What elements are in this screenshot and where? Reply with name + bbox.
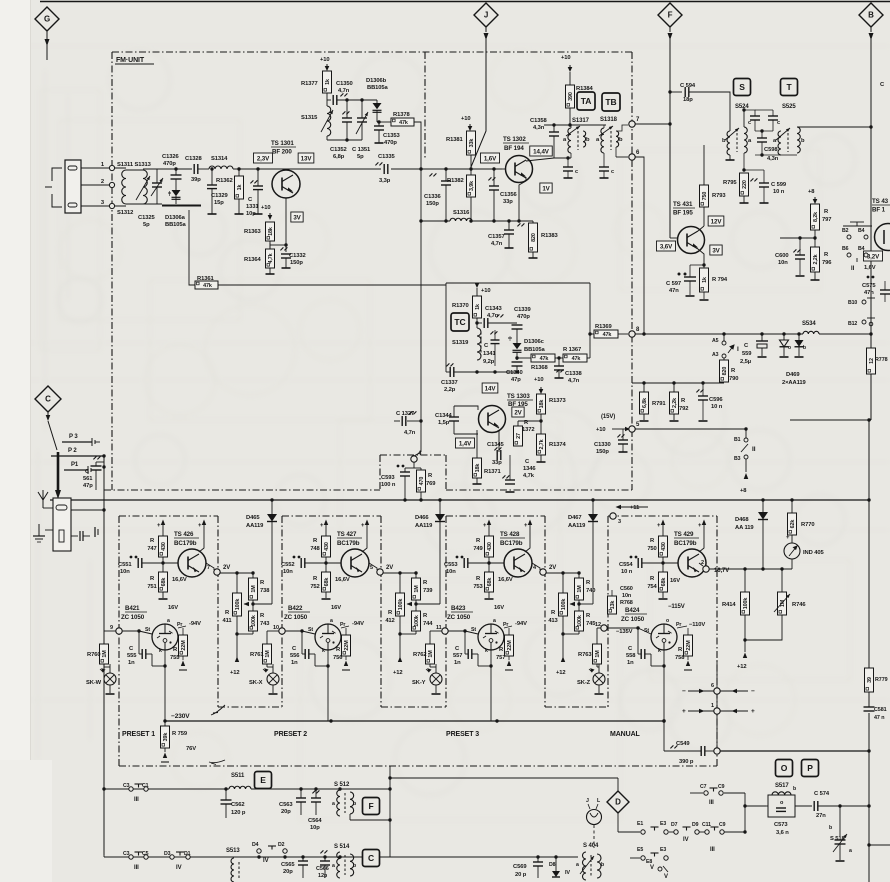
wire tuned circuit top	[143, 168, 192, 170]
svg-text:R1369: R1369	[595, 324, 612, 330]
resistor 757	[505, 635, 514, 656]
resistor R740	[575, 578, 584, 600]
indicator tube B421	[152, 624, 178, 650]
wire tube cathode	[164, 650, 166, 721]
svg-text:PRESET 3: PRESET 3	[446, 731, 479, 738]
alignment box P	[802, 760, 819, 777]
svg-text:150p: 150p	[596, 449, 609, 455]
capacitor c of S1318	[603, 153, 605, 167]
capacitor C1329	[207, 184, 217, 186]
svg-text:S 512: S 512	[334, 782, 350, 788]
capacitor c of S1317	[567, 158, 569, 167]
svg-text:R1370: R1370	[452, 303, 469, 309]
svg-text:−: −	[682, 688, 686, 695]
svg-text:I: I	[737, 346, 739, 353]
resistor R739	[412, 578, 421, 600]
wire node to left	[780, 237, 815, 239]
svg-text:R778: R778	[875, 357, 888, 363]
svg-text:3V: 3V	[712, 247, 720, 254]
wire C1337 to osc base	[454, 371, 517, 373]
svg-text:C1339: C1339	[514, 307, 531, 313]
svg-text:C11: C11	[702, 822, 711, 828]
svg-text:10n: 10n	[283, 569, 293, 575]
wire C7 row to S517	[744, 793, 746, 832]
svg-text:C: C	[368, 853, 374, 863]
wire base node TS 427	[324, 561, 327, 564]
svg-text:+: +	[657, 523, 661, 529]
transformer S524 winding a	[744, 127, 747, 153]
transformer S525 core	[787, 133, 789, 152]
svg-text:a: a	[332, 863, 335, 869]
svg-text:C1325: C1325	[138, 215, 155, 221]
wire S525 b to B bus	[797, 126, 871, 128]
svg-text:+: +	[751, 708, 755, 715]
coil S1313 (tuned)	[126, 169, 143, 171]
svg-text:6,8p: 6,8p	[333, 154, 345, 160]
svg-text:5p: 5p	[357, 154, 364, 160]
svg-text:R1373: R1373	[549, 398, 566, 404]
wire to R795	[743, 153, 745, 170]
svg-text:S517: S517	[775, 783, 789, 789]
svg-text:R1364: R1364	[244, 257, 261, 263]
coil S1311	[115, 167, 126, 169]
resistor R761 (outside box)	[263, 644, 272, 664]
indicator tube B423	[478, 624, 504, 650]
svg-text:1346: 1346	[523, 466, 536, 472]
wire F down to node 7 line and TS431 base	[669, 38, 671, 238]
svg-text:2,2k: 2,2k	[672, 398, 678, 408]
svg-text:790: 790	[729, 376, 738, 382]
svg-text:744: 744	[423, 621, 433, 627]
svg-text:C1356: C1356	[500, 192, 517, 198]
wire to +12	[415, 631, 417, 634]
svg-text:16V: 16V	[494, 605, 504, 611]
wire tube cathode	[327, 650, 329, 721]
earth symbol	[38, 524, 40, 536]
svg-text:4,7k: 4,7k	[268, 253, 274, 263]
svg-text:B10: B10	[848, 300, 857, 306]
svg-text:BC179b: BC179b	[174, 540, 197, 547]
wire base node TS 428	[487, 561, 490, 564]
svg-text:430: 430	[661, 542, 667, 551]
svg-text:16V: 16V	[670, 578, 680, 584]
svg-text:D1306b: D1306b	[366, 78, 387, 84]
svg-text:E8: E8	[646, 859, 652, 865]
svg-text:V: V	[650, 865, 654, 871]
svg-text:D467: D467	[568, 515, 581, 521]
alignment box O	[776, 760, 793, 777]
wire TS1302 collector to S1317	[526, 158, 568, 161]
wire to diode D46x	[253, 603, 272, 605]
svg-text:C: C	[45, 395, 51, 404]
svg-text:a: a	[332, 801, 335, 807]
wire base node TS 426	[161, 561, 164, 564]
wire J to mixer node	[471, 38, 486, 167]
svg-text:S524: S524	[735, 104, 749, 110]
svg-text:+: +	[198, 523, 202, 529]
svg-text:68k: 68k	[487, 578, 493, 587]
svg-text:R1374: R1374	[549, 442, 566, 448]
svg-text:16,6V: 16,6V	[335, 577, 350, 583]
svg-text:16,6V: 16,6V	[172, 577, 187, 583]
resistor R1371	[473, 458, 482, 478]
junction with arrow	[252, 600, 254, 611]
transformer S524 winding b	[727, 131, 730, 155]
wire S1316 row	[421, 220, 450, 222]
svg-text:10 n: 10 n	[773, 189, 785, 195]
wire node to St	[285, 630, 302, 632]
coupling capacitor c (left)	[744, 110, 755, 116]
svg-text:AA 119: AA 119	[735, 525, 754, 531]
svg-text:18k: 18k	[268, 227, 274, 236]
wire row 1 (y=789)	[104, 788, 229, 790]
svg-text:+10: +10	[596, 427, 606, 433]
transformer S525 winding b	[797, 127, 800, 153]
svg-text:1n: 1n	[291, 660, 298, 666]
svg-text:220: 220	[742, 180, 748, 189]
svg-text:R1377: R1377	[301, 81, 318, 87]
svg-text:+10: +10	[561, 55, 571, 61]
wire R1381 to line	[470, 155, 472, 169]
svg-text:F: F	[368, 801, 373, 811]
svg-text:556: 556	[290, 653, 300, 659]
svg-text:IV: IV	[565, 870, 570, 876]
svg-text:76V: 76V	[186, 746, 196, 752]
svg-text:R1382: R1382	[447, 178, 464, 184]
wire tuned circuit bottom	[143, 203, 162, 205]
node 6	[629, 154, 635, 160]
svg-text:B2: B2	[842, 228, 849, 234]
svg-text:C1336: C1336	[424, 194, 441, 200]
svg-text:10: 10	[273, 625, 279, 631]
capacitor C551	[130, 556, 133, 559]
svg-text:D4: D4	[252, 842, 259, 848]
svg-text:100k: 100k	[414, 615, 420, 627]
svg-text:10p: 10p	[310, 825, 320, 831]
svg-text:S511: S511	[231, 773, 245, 779]
svg-text:33p: 33p	[503, 199, 513, 205]
svg-text:47k: 47k	[540, 356, 549, 362]
alignment box TB	[602, 93, 620, 111]
alignment box TA	[577, 92, 595, 110]
svg-text:1k: 1k	[702, 277, 708, 283]
wire collector TS429	[699, 533, 704, 552]
node 8	[629, 331, 635, 337]
wire node6 right and down	[635, 157, 644, 334]
svg-text:100k: 100k	[743, 598, 749, 610]
svg-text:b: b	[829, 825, 832, 831]
svg-text:BB105a: BB105a	[165, 222, 187, 228]
svg-text:P1: P1	[71, 462, 79, 468]
wire collector TS 428	[525, 533, 530, 552]
svg-text:13V: 13V	[301, 155, 313, 162]
svg-text:c: c	[777, 120, 780, 126]
svg-text:S1311 S1313: S1311 S1313	[117, 162, 152, 168]
wire / arrow from J	[485, 27, 487, 32]
connector D (diamond)	[607, 791, 629, 813]
svg-text:413: 413	[548, 618, 558, 624]
connector F	[658, 3, 682, 27]
svg-text:IV: IV	[683, 837, 689, 843]
voltage box 2,3V	[253, 153, 272, 163]
voltage box 2V	[512, 407, 524, 417]
svg-text:C1332: C1332	[289, 253, 306, 259]
voltage box 3,6V	[656, 241, 675, 251]
capacitor C596	[696, 389, 704, 393]
wire B424 cathode	[663, 650, 665, 751]
svg-text:10n: 10n	[622, 593, 632, 599]
resistor R770	[788, 513, 797, 535]
svg-text:D465: D465	[246, 515, 260, 521]
svg-text:B: B	[868, 11, 874, 20]
wire box to earth	[45, 529, 53, 531]
svg-text:752: 752	[310, 584, 319, 590]
svg-text:D466: D466	[415, 515, 429, 521]
svg-text:C569: C569	[513, 864, 527, 870]
svg-text:C565: C565	[281, 862, 295, 868]
svg-text:E: E	[260, 775, 266, 785]
svg-text:820: 820	[722, 367, 728, 376]
transformer S1317 core	[577, 131, 579, 150]
svg-text:R761: R761	[250, 652, 264, 658]
capacitor C1352	[342, 117, 352, 119]
wire tube cathode	[490, 650, 492, 721]
svg-text:S1312: S1312	[117, 210, 133, 216]
svg-text:C554: C554	[619, 562, 633, 568]
svg-text:100k: 100k	[577, 615, 583, 627]
svg-text:+10: +10	[534, 377, 544, 383]
arrows at node 6	[688, 690, 714, 692]
svg-text:820: 820	[531, 233, 537, 242]
wire lamp to S404 (dashed)	[593, 825, 595, 848]
AGC wire R1378 down to node 4	[414, 122, 421, 452]
transformer S1318 winding b	[616, 131, 619, 147]
svg-text:5p: 5p	[143, 222, 150, 228]
svg-text:III: III	[134, 797, 139, 803]
svg-text:S1318: S1318	[600, 117, 618, 123]
svg-text:S1316: S1316	[453, 210, 470, 216]
wire S1317 bottom / collector node	[554, 157, 571, 159]
svg-text:470p: 470p	[517, 314, 530, 320]
svg-text:2V: 2V	[514, 409, 522, 416]
svg-text:3,6V: 3,6V	[660, 243, 673, 250]
junction with arrow	[578, 600, 580, 611]
svg-text:+: +	[698, 523, 702, 529]
svg-text:R763: R763	[578, 652, 592, 658]
svg-text:557: 557	[453, 653, 462, 659]
svg-text:S1319: S1319	[452, 340, 469, 346]
svg-text:14V: 14V	[485, 385, 497, 392]
svg-text:B422: B422	[288, 605, 303, 612]
svg-text:C598: C598	[764, 147, 778, 153]
svg-text:748: 748	[310, 546, 320, 552]
capacitor C1325 (variable)	[152, 182, 162, 184]
svg-text:150p: 150p	[426, 201, 439, 207]
junction with arrow	[415, 600, 417, 611]
svg-text:4,3n: 4,3n	[767, 156, 779, 162]
transformer S1318 core	[610, 131, 612, 150]
svg-text:SK-Z: SK-Z	[577, 680, 591, 686]
svg-text:+12: +12	[737, 664, 747, 670]
svg-text:ZC 1050: ZC 1050	[284, 614, 308, 621]
svg-text:C563: C563	[279, 802, 293, 808]
svg-text:C1328: C1328	[185, 156, 202, 162]
svg-text:J: J	[484, 11, 488, 20]
wire connector to terminals	[81, 167, 109, 169]
node 7 output	[214, 569, 220, 575]
svg-text:758: 758	[675, 655, 685, 661]
alignment box TC	[451, 313, 469, 331]
svg-text:A3: A3	[712, 352, 719, 358]
svg-text:IV: IV	[176, 865, 182, 871]
wire R1370 to osc node	[476, 318, 478, 323]
svg-text:D7: D7	[671, 822, 678, 828]
svg-text:TS 427: TS 427	[337, 531, 357, 538]
svg-text:c: c	[611, 169, 614, 175]
svg-text:D: D	[615, 798, 621, 807]
svg-text:B423: B423	[451, 605, 466, 612]
svg-text:743: 743	[260, 621, 270, 627]
svg-text:7: 7	[207, 565, 210, 571]
svg-text:C552: C552	[281, 562, 294, 568]
wire node to St	[448, 630, 465, 632]
svg-text:1372: 1372	[522, 427, 535, 433]
svg-text:R1362: R1362	[216, 178, 233, 184]
svg-text:2V: 2V	[386, 565, 393, 571]
wire node2 right	[709, 568, 792, 570]
wire R1377 to C1350	[326, 93, 328, 100]
svg-text:1M: 1M	[265, 650, 271, 658]
svg-text:754: 754	[647, 584, 657, 590]
diode D469a	[780, 340, 789, 347]
svg-text:796: 796	[822, 260, 832, 266]
svg-text:C1352: C1352	[330, 147, 347, 153]
svg-text:R760: R760	[87, 652, 100, 658]
svg-text:411: 411	[222, 618, 232, 624]
wire to diode D46x	[579, 603, 593, 605]
svg-text:+: +	[483, 523, 487, 529]
wire stub at right edge y=845	[867, 843, 870, 846]
svg-text:TS 428: TS 428	[500, 531, 520, 538]
node 10 input	[279, 628, 285, 634]
svg-text:B424: B424	[625, 607, 640, 614]
svg-text:561: 561	[83, 476, 93, 482]
supply +8 below II	[744, 473, 749, 479]
svg-text:-94V: -94V	[189, 621, 201, 627]
svg-text:C581: C581	[874, 707, 887, 713]
svg-text:SK-W: SK-W	[86, 680, 102, 686]
wire collector TS 426	[199, 533, 204, 552]
svg-text:k: k	[159, 648, 162, 654]
svg-text:9: 9	[110, 625, 113, 631]
wire / arrow from G	[46, 31, 48, 60]
resistor R778	[867, 348, 876, 374]
wire detector output bus y=383	[632, 382, 724, 384]
svg-text:C 574: C 574	[814, 791, 830, 797]
svg-text:39: 39	[867, 677, 873, 683]
svg-text:1341: 1341	[483, 351, 496, 357]
svg-text:47p: 47p	[83, 483, 93, 489]
resistor R411	[233, 593, 242, 616]
resistor R779	[865, 668, 874, 692]
svg-text:C1338: C1338	[565, 371, 582, 377]
svg-text:39p: 39p	[191, 177, 201, 183]
svg-text:756: 756	[333, 655, 343, 661]
wire S1318 bottom to node 6	[615, 147, 617, 157]
wire node12 to St	[607, 627, 638, 629]
svg-text:C1344: C1344	[435, 413, 452, 419]
indicator tube B422	[315, 624, 341, 650]
svg-text:IV: IV	[263, 858, 269, 864]
transformer S1317 winding b	[583, 131, 586, 147]
svg-text:+10: +10	[481, 288, 491, 294]
wire node 5 to divider	[383, 572, 416, 574]
svg-text:E1: E1	[637, 821, 643, 827]
svg-text:ZC 1050: ZC 1050	[121, 614, 145, 621]
main supply bus y=500	[50, 499, 869, 501]
svg-text:2,5µ: 2,5µ	[740, 359, 751, 365]
svg-text:-94V: -94V	[352, 621, 364, 627]
wire TS431 collector	[698, 226, 704, 231]
svg-text:MANUAL: MANUAL	[610, 731, 641, 738]
svg-text:F: F	[668, 11, 673, 20]
svg-text:3,3p: 3,3p	[379, 178, 391, 184]
svg-text:16V: 16V	[168, 605, 178, 611]
wire / arrow from C	[47, 412, 49, 415]
svg-text:BF 194: BF 194	[504, 145, 524, 152]
svg-text:S 404: S 404	[583, 843, 599, 849]
svg-text:C575: C575	[862, 283, 876, 289]
alignment box F	[363, 798, 380, 815]
wire node 8 line right	[720, 750, 869, 752]
svg-text:100k: 100k	[251, 615, 257, 627]
potentiometer R746	[778, 592, 787, 615]
svg-text:AA119: AA119	[415, 523, 433, 529]
svg-text:C564: C564	[308, 818, 322, 824]
svg-text:C1340: C1340	[506, 370, 523, 376]
wire C1343 to C1339	[488, 322, 517, 324]
svg-text:TS 1302: TS 1302	[503, 136, 526, 143]
wire emitter TS 428 to node	[532, 563, 540, 570]
svg-text:R746: R746	[792, 602, 806, 608]
capacitor C1357	[517, 223, 525, 227]
capacitor C566 (variable)	[320, 850, 328, 854]
capacitor C561	[93, 456, 101, 460]
wire C1328 to S1314	[198, 168, 209, 170]
svg-text:C1358: C1358	[530, 118, 547, 124]
svg-text:a: a	[493, 618, 496, 624]
svg-text:R1363: R1363	[244, 229, 261, 235]
node 5 output	[377, 569, 383, 575]
wire TS1301 emitter chain	[285, 198, 287, 252]
svg-text:S1315: S1315	[301, 115, 318, 121]
wire R1373 down	[540, 414, 542, 421]
svg-text:C9: C9	[719, 822, 726, 828]
svg-text:S1314: S1314	[211, 156, 228, 162]
svg-text:ZC 1050: ZC 1050	[447, 614, 471, 621]
svg-text:100k: 100k	[235, 599, 241, 611]
wire branch at y=420 to B bus	[790, 419, 871, 421]
node 2 output	[699, 563, 703, 566]
wire / arrow from F	[669, 27, 671, 32]
svg-text:E5: E5	[637, 847, 643, 853]
svg-text:68k: 68k	[661, 578, 667, 587]
svg-text:2V: 2V	[223, 565, 230, 571]
connector C (diamond)	[35, 386, 61, 412]
svg-text:10n: 10n	[120, 569, 130, 575]
svg-text:k: k	[658, 648, 661, 654]
riser between rows	[389, 766, 391, 857]
